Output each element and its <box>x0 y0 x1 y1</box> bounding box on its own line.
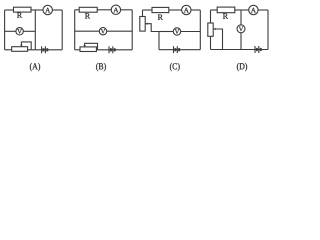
battery (A) <box>42 46 48 53</box>
rheostat box (A) <box>12 47 28 52</box>
wire bottom right (B) <box>96 49 132 51</box>
resistor R (D) <box>217 7 235 13</box>
rheostat wiper loop (B) <box>85 43 98 50</box>
wiper arrowhead (B) <box>83 45 85 47</box>
wire voltmeter rung left (C) <box>159 31 173 33</box>
wiper arrowhead (C) <box>145 23 147 25</box>
label (C) <box>170 63 180 71</box>
wire voltmeter rung right (C) <box>181 31 201 33</box>
wire top-left A <box>5 9 14 11</box>
wire left edge (B) <box>74 10 76 50</box>
voltmeter letter V (B) <box>101 29 106 33</box>
rheostat box (B) <box>80 47 96 52</box>
wire bottom right (A) <box>28 49 63 51</box>
rheostat wiper wire (D) <box>214 29 223 50</box>
ammeter letter A (C) <box>184 8 189 13</box>
ammeter A (A) <box>43 5 52 14</box>
label R (C) <box>158 15 163 20</box>
voltmeter letter V (A) <box>17 29 22 33</box>
wire voltmeter rung left (A) <box>5 30 16 32</box>
wire right edge (C) <box>199 10 201 50</box>
wire top-left B <box>75 9 80 11</box>
voltmeter V (C) <box>173 28 180 35</box>
wire ammeter to corner (A) <box>52 9 62 11</box>
wire bottom (D) <box>211 49 269 51</box>
wire junction leg down (C) <box>158 32 160 50</box>
resistor R (C) <box>152 7 169 12</box>
wire right edge (B) <box>131 10 133 50</box>
wire bottom (C) <box>159 49 200 51</box>
label (D) <box>237 63 247 71</box>
voltmeter V (B) <box>99 28 106 35</box>
label R (D) <box>223 13 228 18</box>
battery (D) <box>255 46 261 53</box>
wire ammeter to corner (D) <box>258 9 268 11</box>
wire voltmeter rung left (B) <box>75 30 100 32</box>
wire below rheostat (D) <box>210 36 212 49</box>
wire junction vertical upper (D) <box>240 10 242 25</box>
wire R to ammeter (C) <box>169 9 182 11</box>
wire R to ammeter (B) <box>97 9 111 11</box>
rheostat wiper loop (A) <box>21 42 31 50</box>
resistor R (B) <box>79 7 97 12</box>
wire voltmeter rung right (A) <box>23 30 35 32</box>
label R (A) <box>17 13 22 18</box>
wiper arrowhead (D) <box>213 28 215 30</box>
voltmeter V (A) <box>16 28 23 35</box>
wire right edge (A) <box>61 10 63 50</box>
voltmeter letter V (D) <box>239 27 244 31</box>
voltmeter V (D) <box>237 25 245 33</box>
rheostat box (C) <box>140 17 145 32</box>
rheostat box (D) <box>208 23 213 36</box>
wire left edge upper (C) <box>142 10 144 17</box>
label R (B) <box>85 13 90 18</box>
label (B) <box>96 63 106 71</box>
ammeter A (C) <box>182 5 191 14</box>
wire middle vertical (A) <box>34 10 36 50</box>
ammeter letter A (A) <box>45 8 50 13</box>
ammeter letter A (B) <box>113 8 118 13</box>
wire bottom left (A) <box>5 49 12 51</box>
wiper arrowhead (A) <box>20 45 22 47</box>
resistor R (A) <box>14 7 32 12</box>
wire bottom left (B) <box>75 49 80 51</box>
label (A) <box>30 63 40 71</box>
wire ammeter to corner (B) <box>121 9 133 11</box>
wire top-left D <box>211 9 218 11</box>
voltmeter letter V (C) <box>175 29 180 33</box>
wire voltmeter rung right (B) <box>107 30 133 32</box>
wire R to ammeter (A) <box>31 9 43 11</box>
rheostat wiper wire (C) <box>146 24 159 32</box>
wire voltmeter leg down (D) <box>240 33 242 50</box>
wire left edge (A) <box>4 10 6 50</box>
wire left edge upper (D) <box>210 10 212 23</box>
battery (B) <box>109 46 115 53</box>
battery (C) <box>174 46 180 53</box>
wire right edge (D) <box>267 10 269 50</box>
ammeter A (B) <box>111 5 120 14</box>
wire ammeter to corner (C) <box>191 9 200 11</box>
ammeter letter A (D) <box>251 8 256 13</box>
wire top-left C <box>143 9 153 11</box>
ammeter A (D) <box>249 5 258 14</box>
wire R to junction to ammeter (D) <box>235 9 249 11</box>
